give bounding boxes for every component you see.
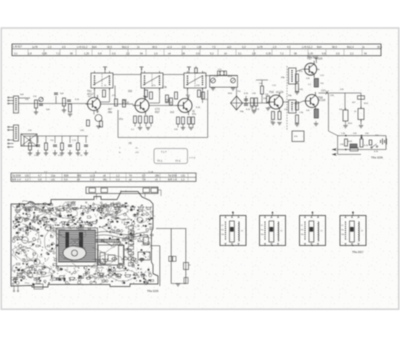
svg-text:0,35: 0,35 (266, 51, 272, 55)
svg-text:AF117: AF117 (87, 93, 95, 96)
svg-text:36,5: 36,5 (152, 45, 158, 49)
svg-text:21a: 21a (51, 175, 56, 178)
svg-text:1x78: 1x78 (32, 45, 38, 49)
svg-text:96,5: 96,5 (332, 45, 338, 49)
svg-text:3,1: 3,1 (238, 51, 242, 55)
svg-text:x21: x21 (51, 179, 56, 182)
svg-text:Fm: Fm (341, 230, 344, 232)
svg-text:(4): (4) (129, 142, 132, 145)
svg-text:4,5: 4,5 (62, 45, 66, 49)
svg-text:C97: C97 (321, 91, 326, 93)
svg-text:1,2: 1,2 (181, 179, 185, 182)
svg-text:Bb2,4: Bb2,4 (347, 45, 354, 49)
svg-text:96,5: 96,5 (107, 45, 113, 49)
svg-text:28b: 28b (155, 175, 160, 178)
svg-text:AC126: AC126 (276, 91, 284, 94)
svg-text:AC128: AC128 (318, 99, 326, 102)
svg-text:L.B.517: L.B.517 (13, 45, 22, 49)
svg-text:1,8: 1,8 (28, 51, 32, 55)
svg-text:8,2k: 8,2k (64, 269, 68, 271)
svg-text:5,6: 5,6 (64, 179, 68, 182)
svg-text:0,5: 0,5 (182, 45, 186, 49)
svg-text:6,8: 6,8 (98, 51, 102, 55)
svg-text:TRa 3234: TRa 3234 (371, 156, 383, 160)
svg-text:0,35: 0,35 (42, 51, 48, 55)
svg-text:96L: 96L (103, 179, 108, 182)
svg-text:a12: a12 (227, 45, 232, 49)
svg-text:L38: L38 (197, 45, 202, 49)
svg-text:1,5k: 1,5k (162, 86, 167, 89)
svg-text:TRa 2617: TRa 2617 (352, 250, 364, 254)
svg-text:Tol.5/54: Tol.5/54 (12, 175, 21, 178)
svg-text:47n: 47n (25, 230, 28, 232)
svg-text:4,5: 4,5 (287, 45, 291, 49)
svg-text:57: 57 (241, 231, 243, 233)
svg-text:7,2: 7,2 (56, 51, 60, 55)
svg-text:x1,4: x1,4 (167, 45, 172, 49)
svg-text:b-: b- (119, 152, 121, 154)
svg-text:57: 57 (361, 231, 363, 233)
svg-text:Bb2,4: Bb2,4 (122, 45, 129, 49)
svg-text:47n: 47n (192, 113, 197, 116)
svg-text:Fm: Fm (261, 230, 264, 232)
svg-text:TT 2: TT 2 (157, 160, 163, 163)
svg-text:Bd4: Bd4 (317, 45, 322, 49)
svg-text:1·: 1· (119, 148, 121, 150)
svg-text:5,2: 5,2 (210, 51, 214, 55)
svg-text:TS7: TS7 (307, 58, 312, 61)
svg-text:2n2: 2n2 (170, 111, 175, 114)
svg-text:2,2: 2,2 (350, 51, 354, 55)
svg-text:L=5 N1,2: L=5 N1,2 (302, 45, 313, 49)
svg-text:0,3: 0,3 (242, 45, 246, 49)
svg-text:7,5: 7,5 (212, 45, 216, 49)
svg-text:Bd4: Bd4 (92, 45, 97, 49)
svg-text:0,9: 0,9 (336, 51, 340, 55)
svg-text:4,7: 4,7 (38, 175, 42, 178)
svg-text:1,6: 1,6 (154, 51, 158, 55)
svg-text:10k: 10k (112, 230, 115, 232)
svg-text:-4,-: -4,- (135, 148, 139, 150)
svg-text:68p: 68p (108, 111, 113, 114)
svg-text:6,8: 6,8 (322, 51, 326, 55)
svg-text:3,1: 3,1 (14, 51, 18, 55)
svg-text:1,2: 1,2 (25, 179, 29, 182)
svg-text:57: 57 (281, 231, 283, 233)
svg-text:0,3: 0,3 (116, 179, 120, 182)
svg-text:57: 57 (321, 231, 323, 233)
svg-text:1k: 1k (139, 269, 141, 271)
svg-text:1,2: 1,2 (116, 175, 120, 178)
svg-text:B/R 1-4: B/R 1-4 (12, 179, 21, 182)
svg-text:R37: R37 (155, 111, 160, 114)
svg-text:2,4: 2,4 (90, 179, 94, 182)
svg-text:T.L.A: T.L.A (148, 170, 154, 173)
svg-text:-1,5: -1,5 (272, 45, 277, 49)
svg-text:L2,4: L2,4 (90, 175, 95, 178)
svg-text:1,25: 1,25 (308, 51, 314, 55)
svg-text:L51: L51 (25, 175, 30, 178)
svg-text:TRa 3235: TRa 3235 (147, 289, 159, 293)
svg-text:TT 4: TT 4 (175, 160, 181, 163)
svg-text:T 1 ?: T 1 ? (161, 151, 167, 154)
svg-text:8,2k: 8,2k (73, 280, 77, 282)
svg-text:Fm: Fm (221, 230, 224, 232)
svg-text:0,9: 0,9 (112, 51, 116, 55)
svg-text:B/R 1-4: B/R 1-4 (168, 179, 177, 182)
svg-text:Fm: Fm (301, 230, 304, 232)
svg-text:1,5k: 1,5k (72, 226, 76, 228)
svg-text:1,25: 1,25 (84, 51, 90, 55)
svg-text:-1,5: -1,5 (47, 45, 52, 49)
svg-text:965: 965 (77, 175, 82, 178)
svg-text:L=5 N1,2: L=5 N1,2 (77, 45, 88, 49)
svg-text:47n: 47n (119, 118, 124, 121)
svg-text:7,2: 7,2 (280, 51, 284, 55)
svg-text:0,6: 0,6 (196, 51, 200, 55)
svg-text:1x78: 1x78 (257, 45, 263, 49)
svg-text:L51: L51 (181, 175, 186, 178)
svg-text:220: 220 (128, 90, 133, 93)
svg-text:0,8: 0,8 (38, 179, 42, 182)
svg-text:TS6: TS6 (269, 91, 274, 94)
svg-text:36,5: 36,5 (377, 45, 383, 49)
svg-text:1 TT 8: 1 TT 8 (189, 158, 196, 160)
svg-text:B38: B38 (64, 175, 69, 178)
